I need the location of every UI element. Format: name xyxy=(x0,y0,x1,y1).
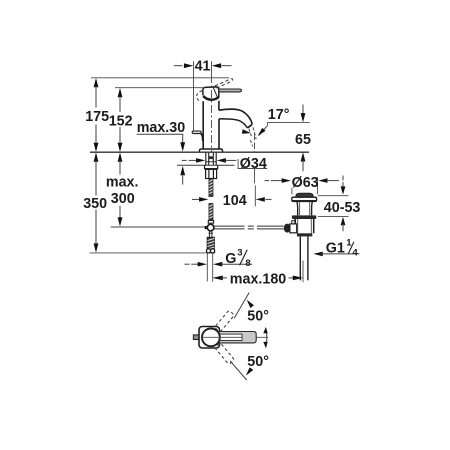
supply pipe end circles xyxy=(206,249,214,253)
swing arc double arrow xyxy=(263,327,267,348)
shank inner rod xyxy=(206,153,216,165)
stream centerline xyxy=(254,134,256,183)
svg-text:50°: 50° xyxy=(247,354,269,370)
faucet body centerline xyxy=(211,61,213,75)
raised knob back outline dashed xyxy=(196,91,202,101)
mounting washer xyxy=(205,165,218,169)
horizontal pop-up actuating rod xyxy=(214,226,284,229)
svg-text:max.180: max.180 xyxy=(230,272,286,288)
dim G3/8 arrows xyxy=(185,254,253,282)
spout mouth inner tick xyxy=(249,126,251,128)
svg-text:175: 175 xyxy=(85,109,109,125)
handle knob seam xyxy=(213,87,217,96)
svg-text:40-53: 40-53 xyxy=(324,200,361,216)
dim 350 dimension line xyxy=(83,152,107,252)
drain lever ball xyxy=(284,224,291,233)
dashed lever rotated down 50deg xyxy=(214,343,234,365)
svg-text:G1: G1 xyxy=(326,240,345,256)
label G3/8 xyxy=(225,248,251,270)
plan view centerline over circle xyxy=(202,336,242,338)
ref line pop-up rod level (max.300) xyxy=(111,226,205,228)
svg-text:Ø34: Ø34 xyxy=(240,156,267,172)
dim 41 dimension line xyxy=(174,58,232,74)
plan view knob circle xyxy=(202,329,220,347)
dim max.30 arrows at deck xyxy=(180,134,185,184)
drain lever housing xyxy=(290,224,297,233)
base plate xyxy=(199,149,222,152)
svg-text:17°: 17° xyxy=(268,107,290,123)
svg-text:350: 350 xyxy=(83,196,107,212)
plan view lever inner rect xyxy=(220,334,242,340)
label G1 1/4 xyxy=(313,238,359,259)
label max.30 with underline leader xyxy=(137,120,186,136)
svg-text:152: 152 xyxy=(109,114,133,130)
drain flange plate xyxy=(292,197,317,201)
ref line top of handle (152) xyxy=(115,87,203,89)
17deg angle leader slant xyxy=(259,126,267,135)
faucet handle knob xyxy=(203,87,219,98)
water stream dashes xyxy=(249,127,256,146)
tailpipe xyxy=(300,236,308,280)
svg-text:41: 41 xyxy=(195,58,211,74)
dim diameter 63 xyxy=(265,175,339,194)
mounting nut xyxy=(206,169,217,178)
dim 41 extension line left xyxy=(193,61,195,131)
water stream arrowhead left xyxy=(242,129,251,134)
pop-up rod knob xyxy=(192,131,201,133)
svg-text:G: G xyxy=(225,251,236,267)
svg-text:3: 3 xyxy=(237,248,242,259)
lower 50deg leader arrowhead xyxy=(246,367,253,375)
upper 50deg leader arrowhead xyxy=(247,300,254,308)
ref line top of raised lever (175) xyxy=(91,77,229,79)
drain body bottom band xyxy=(297,233,312,236)
svg-text:8: 8 xyxy=(245,258,251,269)
pivot ball joint xyxy=(207,224,214,231)
rod collar xyxy=(208,220,213,223)
dim 152 dimension line xyxy=(109,88,133,152)
dim 40-53 xyxy=(318,176,360,232)
pop-up rod curve to body xyxy=(201,134,203,142)
svg-text:4: 4 xyxy=(352,248,358,259)
dashed lever rotated up 50deg xyxy=(214,310,234,332)
dim 104 xyxy=(192,185,272,209)
drain seal ring xyxy=(292,215,316,219)
pop-up rod threaded segment 1 xyxy=(209,179,213,197)
shank outer walls xyxy=(206,153,216,165)
supply pipe block G3/8 xyxy=(207,237,214,249)
deck bottom line xyxy=(177,164,235,166)
handle knob bottom thick arc xyxy=(203,96,219,100)
upper 50deg boundary line xyxy=(234,293,249,319)
faucet body right edge upper xyxy=(218,101,220,110)
dim 65 dimension line xyxy=(295,105,311,172)
lever bar xyxy=(219,89,242,92)
dim diameter 34 xyxy=(182,156,267,172)
drain body walls xyxy=(295,219,313,233)
svg-text:300: 300 xyxy=(111,191,135,207)
svg-text:104: 104 xyxy=(223,193,247,209)
pivot cone left xyxy=(205,226,208,230)
spout bottom curve xyxy=(219,119,247,128)
svg-text:50°: 50° xyxy=(247,309,269,325)
water stream arrowhead right xyxy=(258,128,266,136)
drain neck xyxy=(297,202,312,216)
drain flange cap xyxy=(296,193,314,197)
spout outlet face xyxy=(247,124,252,128)
raised lever dashed xyxy=(215,79,233,88)
plan view lever arm xyxy=(218,332,257,343)
plan view centerline xyxy=(196,336,269,338)
ref line bottom of supply pipes (350) xyxy=(90,252,216,254)
dim max.300 dimension line xyxy=(106,152,139,226)
rod below ball xyxy=(209,231,213,237)
faucet body right edge lower xyxy=(218,119,220,149)
lower 50deg boundary line xyxy=(230,361,247,380)
faucet body left edge xyxy=(202,101,204,149)
ref line 17deg / 65 top xyxy=(267,123,309,127)
pop-up rod threaded segment 2 xyxy=(209,204,213,220)
drain body inner lines xyxy=(298,219,312,233)
plan view body square xyxy=(199,327,220,349)
svg-text:65: 65 xyxy=(295,132,311,148)
drain neck inner lines xyxy=(300,202,310,215)
plan view left stub xyxy=(193,335,199,340)
deck top line xyxy=(90,151,309,153)
drain lever pin xyxy=(292,221,295,224)
svg-text:Ø63: Ø63 xyxy=(292,175,319,191)
spout top curve xyxy=(219,109,252,124)
drain flange underside shadow xyxy=(293,200,316,202)
dim max.180 xyxy=(212,261,303,288)
svg-text:max.: max. xyxy=(106,175,139,191)
dim 175 dimension line xyxy=(85,78,109,152)
